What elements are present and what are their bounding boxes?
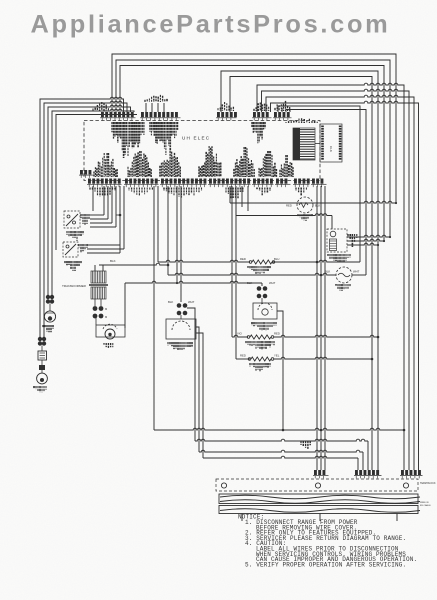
SW1 terminal labels <box>81 214 89 225</box>
wire label cluster bottom 3 <box>160 148 180 177</box>
labels below J9 <box>226 188 243 199</box>
connector J14 (board left edge) <box>79 170 94 178</box>
wire sensor top drop <box>331 216 333 230</box>
wire label cluster bottom 4 <box>199 146 221 177</box>
wire sensor 1 <box>347 235 390 237</box>
wire cooling fan to rail A6 <box>352 274 366 276</box>
notice text block <box>238 514 417 569</box>
terminal connector mid group <box>354 470 382 478</box>
stub wire from J6 d <box>115 186 117 227</box>
oven lamp upper plug pair <box>46 295 54 304</box>
wire V181 (J8 to door lock plug) <box>180 186 182 302</box>
wire rail B4 (J4 riser to terminal right) <box>271 101 419 470</box>
labels below J12 <box>296 188 306 196</box>
junction transformer feed <box>167 264 170 267</box>
stub labels above J4 <box>254 103 269 112</box>
wire rail C1 (J5 riser to broil element) <box>278 106 360 262</box>
wire transformer primary a <box>94 265 96 271</box>
wire rail B3 (J4 riser to terminal right) <box>266 95 414 470</box>
wire bottom rail y458 <box>203 456 358 458</box>
oven lamp upper <box>44 304 55 323</box>
wire rail A2 (J1 riser to sensor 1) <box>116 60 390 237</box>
labels below J8 <box>164 188 202 198</box>
labels below J7 <box>129 188 152 196</box>
wire transformer primary b <box>102 265 104 271</box>
wire SW2 c <box>87 252 120 254</box>
wire rail A3 (J1 riser to sensor 2) <box>120 66 384 242</box>
connector J10 (board bottom 5) <box>252 179 274 188</box>
wire bake element right <box>274 357 373 359</box>
wire SW1 a <box>90 214 104 216</box>
wire V325 (J13 to terminal) <box>324 186 326 470</box>
wire convection element right <box>274 335 379 337</box>
junction y430-V321 <box>320 429 323 432</box>
oven light LP1 <box>297 197 313 213</box>
wire left L4 <box>52 109 134 295</box>
wire y458 drop <box>357 458 359 470</box>
connector J12 (board bottom 7) <box>293 179 310 188</box>
bake element terminals <box>248 358 274 361</box>
wire V236 (J9 to bake element) <box>235 186 237 359</box>
cooling fan motor (lower) <box>96 318 125 339</box>
wire conv fan plug drop <box>261 283 263 286</box>
terminal block dashed outline <box>216 479 418 491</box>
control board dashed outline (UH ELEC) <box>84 121 320 181</box>
cooling fan CF1 <box>336 267 352 283</box>
wire convection element left <box>232 335 248 337</box>
stub labels above J2 <box>145 95 167 102</box>
wire transformer feed <box>99 263 168 265</box>
wire SW2 b <box>87 248 124 250</box>
wire label cluster bottom 5 <box>234 147 254 177</box>
power cable upper sheath with wavy conductors <box>219 494 420 504</box>
lower lamp holder block <box>38 346 47 371</box>
junction V317-y262 <box>316 261 319 264</box>
connector J7 (board bottom 2) <box>124 179 159 188</box>
connector J1 (board top-left) <box>100 112 136 121</box>
SW2 name label <box>65 261 81 271</box>
oven lamp lower label <box>34 386 46 392</box>
connector J9 (board bottom 4) <box>208 179 251 188</box>
connector J3 (board top) <box>216 112 237 121</box>
convection fan motor M2 <box>253 298 277 319</box>
broil element terminals <box>249 261 275 264</box>
door switch SW1 dashed box <box>64 211 80 228</box>
stub riser J2 c <box>157 103 159 112</box>
wire V317 (J13 to terminal) <box>316 186 318 470</box>
junction SW1-V120 <box>119 214 122 217</box>
wire bottom rail y430 <box>154 428 404 430</box>
cable tail 1 <box>241 514 243 522</box>
stub wire from J6 f <box>123 186 125 249</box>
wire SW1 to V120 <box>116 214 120 216</box>
wire bake element left <box>236 358 250 360</box>
wire SW2 a <box>87 244 120 246</box>
sensor wire color labels <box>348 234 357 247</box>
wire rail B2 (J4 riser to terminal right) <box>262 89 410 470</box>
wire rail C2 (J5 riser to cooling fan) <box>286 110 366 276</box>
wire label cluster bottom 2 <box>128 151 151 177</box>
convection fan plug pairs <box>257 286 268 298</box>
convection element label <box>246 341 274 350</box>
junction broil-V317 <box>316 261 318 263</box>
wire left L2 <box>44 101 127 337</box>
wire y452 drop <box>362 452 364 470</box>
wire bottom rail y441 <box>195 439 368 441</box>
door switch SW2 dashed box <box>63 242 78 257</box>
stub riser J2 d <box>163 103 165 112</box>
SW2 terminal labels <box>79 244 87 253</box>
stub riser J5 a <box>281 108 283 112</box>
connector J5 (board top-right) <box>273 112 292 121</box>
stub wire from J6 b <box>107 186 109 219</box>
wire label cluster bottom 7 <box>280 155 293 177</box>
wire y441 drop <box>367 441 369 470</box>
oven lamp lower plug pair <box>38 337 46 346</box>
wire conv fan right lead <box>277 311 283 430</box>
terminal L1 <box>221 483 226 488</box>
terminal connector left group <box>313 470 329 478</box>
junction sensor 2 <box>383 240 385 242</box>
wire door motor right lead a <box>196 327 199 452</box>
junction y430-B1 <box>403 429 406 432</box>
labels below J6 <box>90 188 115 197</box>
wire V168 (J8 to cooling fan feed) <box>167 186 169 275</box>
wire sensor 2 <box>347 239 384 241</box>
wire left L1 <box>40 97 124 337</box>
stub labels above J3 <box>218 102 233 111</box>
wire broil lead right <box>272 260 360 262</box>
junction V321-y275 <box>320 274 323 277</box>
oven lamp upper label <box>43 325 53 332</box>
junction bake element rail <box>371 358 374 361</box>
convection fan label <box>252 322 276 331</box>
stub wire from J6 c <box>111 186 113 223</box>
broil element label <box>248 266 270 275</box>
door lock motor label <box>168 342 192 351</box>
stub riser J5 b <box>289 110 291 112</box>
bake element label <box>250 363 270 372</box>
oven light label <box>298 214 312 221</box>
junction sensor 3 <box>377 244 379 246</box>
wire V158 (J8 to broil feed) <box>157 186 159 262</box>
wire door motor right lead b <box>196 333 203 458</box>
stub riser J9 c <box>241 186 243 207</box>
wire SW1 d <box>90 226 116 228</box>
wire label cluster bottom 6 <box>259 151 276 177</box>
connector J2 (board top) <box>140 112 181 121</box>
door lock motor M3 <box>166 315 196 339</box>
transformer T1 <box>62 271 108 299</box>
wire V321 (J13 to terminal) <box>320 186 322 470</box>
wire oven light rail (RED) <box>230 201 396 203</box>
wire rail A1 (J1 riser to oven light rail) <box>112 54 396 203</box>
stub labels above J5 <box>275 101 290 111</box>
wire rail B1 (J4 riser to terminal right) <box>257 83 404 470</box>
junction conv fan feed-V177 <box>176 282 178 284</box>
junction sensor 1 <box>389 236 391 238</box>
wire rail A4 (J3 riser to terminal mid) <box>221 71 378 470</box>
wire broil feed (y262) <box>158 260 250 262</box>
labels above ribbon block <box>286 118 317 123</box>
wire label cluster bottom 1 <box>94 153 117 177</box>
bake element R3 <box>251 357 271 361</box>
ribbon cable block on board <box>293 128 315 160</box>
convection element terminals <box>247 336 274 339</box>
junction conv element rail <box>377 336 380 339</box>
display/clock connector block <box>315 124 342 162</box>
connector J6 (board bottom 1) <box>87 179 122 188</box>
convection element R2 <box>250 335 271 339</box>
terminal L2 <box>403 483 408 488</box>
connector J13 (board bottom 8) <box>311 179 327 188</box>
wire left L3 <box>48 105 131 295</box>
wire motor box right up <box>124 283 126 328</box>
junction y430-V283 <box>282 429 285 432</box>
wire door plug right lead <box>187 308 195 441</box>
wire rail A5 (J3 riser to terminal mid) <box>230 77 372 471</box>
power cable lower sheath <box>219 506 420 514</box>
cable tail 2 <box>319 514 321 522</box>
wire left L5 <box>56 115 137 251</box>
wire V154 (J8 to bottom rail) <box>153 186 155 430</box>
stub wire from J6 e <box>119 186 121 253</box>
junction oven light rail <box>395 202 397 204</box>
scan noise overlay <box>0 0 1 1</box>
stub riser J9 d <box>247 186 249 211</box>
cable tail 3 <box>396 514 398 522</box>
wire label cluster inside board C <box>252 122 265 143</box>
cooling fan label <box>336 284 350 291</box>
wire V232 (J9 to convection element) <box>231 186 233 337</box>
wire V236 (J9 riser to sensor rail) <box>235 186 237 216</box>
transformer secondary plug pairs <box>93 299 108 319</box>
connector J8 (board bottom 3) <box>160 179 207 188</box>
wire cooling fan feed (y275) <box>168 273 336 275</box>
wire bottom rail y452 <box>199 450 363 452</box>
labels below J10 <box>257 188 270 196</box>
oven temp sensor label <box>328 254 350 263</box>
oven lamp lower <box>37 370 48 384</box>
terminal wire labels <box>301 441 310 450</box>
wire J6 to SW1 top <box>92 186 94 211</box>
terminal N <box>315 483 320 488</box>
oven temp sensor RT1 <box>327 229 347 252</box>
wire sensor top rail <box>236 214 332 216</box>
cool fan label <box>104 343 113 348</box>
wire label cluster inside board B <box>150 122 178 155</box>
wire label cluster inside board A <box>112 122 144 158</box>
connector J4 (board top) <box>252 112 272 121</box>
wire V230 (J9 riser to oven light) <box>229 186 231 203</box>
connector J11 (board bottom 6) <box>275 179 291 188</box>
broil element R1 <box>252 260 272 264</box>
stub wire from J6 a <box>103 186 105 215</box>
stub riser J2 b <box>151 103 153 112</box>
door lock plug pairs <box>177 303 188 315</box>
stub riser J2 a <box>145 103 147 112</box>
stub labels above J1 <box>93 102 108 111</box>
wire SW1 b <box>90 218 108 220</box>
wire sensor 3 <box>347 243 378 245</box>
wire V177 (J8 to conv-fan feed) <box>176 186 178 283</box>
wire conv fan feed (y283) <box>125 281 262 283</box>
terminal connector right group <box>400 470 423 478</box>
wire SW1 c <box>90 222 112 224</box>
SW1 name label <box>67 231 83 241</box>
